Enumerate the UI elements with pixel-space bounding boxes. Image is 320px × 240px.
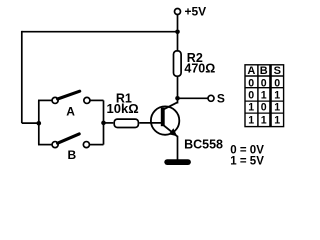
svg-text:0: 0 [261,102,267,114]
svg-text:B: B [260,65,268,77]
switch A [52,91,90,103]
table outer border [245,65,284,127]
svg-text:1: 1 [248,102,254,114]
wire: into switch left bus [22,122,39,124]
ground [167,159,188,165]
resistor R2 [174,51,182,76]
node: output junction [175,96,180,101]
table column line A|B [257,65,259,127]
table row 2: 0 1 1 [248,90,280,102]
transistor base bar [161,108,165,127]
svg-text:1 = 5V: 1 = 5V [230,156,264,168]
svg-text:0: 0 [274,77,280,89]
table row line 2 [245,100,284,102]
node: right bus junction [101,121,106,126]
table row 1: 0 0 0 [248,77,280,89]
resistor R1 [114,119,138,127]
transistor emitter lead [163,125,178,137]
wire: switch A right stub [90,99,104,101]
svg-text:A: A [247,65,255,77]
node: left bus junction [37,121,42,126]
svg-text:1: 1 [261,90,267,102]
svg-text:0: 0 [261,77,267,89]
svg-text:470Ω: 470Ω [184,62,215,76]
svg-text:S: S [217,92,225,106]
svg-text:1: 1 [274,114,280,126]
svg-text:1: 1 [248,114,254,126]
svg-text:S: S [274,65,281,77]
wire: left bus vertical [38,100,40,144]
wire: bus to R1 [104,122,114,124]
svg-text:0 = 0V: 0 = 0V [230,144,264,156]
wire: switch B right stub [89,144,103,146]
node: supply junction [175,30,180,35]
wire: switch B left stub [38,144,52,146]
wire: right bus vertical [103,100,105,144]
svg-text:0: 0 [248,90,254,102]
wire: left vertical [21,31,23,123]
S terminal [208,95,214,101]
transistor collector lead [163,102,178,110]
wire: switch A left stub [38,99,52,101]
svg-text:0: 0 [248,77,254,89]
table row line 3 [245,112,284,114]
table header text [247,65,281,77]
wire: supply junction to R2 top [177,32,179,51]
wire: R1 to base [139,122,161,124]
svg-text:+5V: +5V [185,5,207,19]
table header separator [245,75,284,77]
transistor Q1 circle [151,106,179,134]
wire: output node to S terminal [178,97,209,99]
table row line 1 [245,87,284,89]
wire: +5V terminal down to supply junction [177,15,179,33]
+5V terminal [175,9,181,15]
switch B [52,134,89,148]
truth table [245,65,284,127]
svg-text:A: A [66,104,75,118]
wire: emitter down to ground [177,136,179,160]
svg-text:10kΩ: 10kΩ [107,101,139,116]
wire: output node down to collector [177,98,179,103]
transistor emitter arrow [169,128,178,136]
svg-text:1: 1 [274,90,280,102]
wire: R2 bottom to output node [177,77,179,100]
table column line B|S [269,65,272,127]
table row 4: 1 1 1 [248,114,280,126]
svg-text:B: B [68,148,77,162]
wire: top horizontal [22,31,178,33]
table row 3: 1 0 1 [248,102,280,114]
svg-text:1: 1 [274,102,280,114]
svg-text:BC558: BC558 [184,137,223,151]
svg-text:1: 1 [261,114,267,126]
